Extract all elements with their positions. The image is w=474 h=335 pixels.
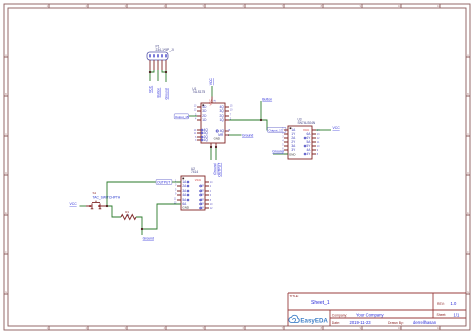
U2 right pin names xyxy=(200,184,205,210)
svg-text:B: B xyxy=(467,92,469,96)
junction S1 node xyxy=(106,205,108,207)
U2 body xyxy=(181,176,205,210)
wire U1 gnd down xyxy=(210,147,212,160)
svg-text:A: A xyxy=(5,53,7,57)
junction U1 cp xyxy=(215,146,217,148)
svg-text:Your Company: Your Company xyxy=(356,313,384,318)
svg-text:A: A xyxy=(467,53,469,57)
IC U1 74LS175 xyxy=(192,87,225,143)
wire button node up xyxy=(260,101,262,120)
svg-text:VCC: VCC xyxy=(195,178,202,182)
svg-text:SN74LS04N: SN74LS04N xyxy=(298,121,316,125)
svg-text:D: D xyxy=(5,171,7,175)
svg-text:1/1: 1/1 xyxy=(454,312,460,317)
svg-text:E: E xyxy=(5,211,7,215)
U2 left pin names xyxy=(182,180,187,206)
svg-text:Date:: Date: xyxy=(332,321,340,325)
U3 left pin numbers xyxy=(282,127,284,154)
svg-text:1Q: 1Q xyxy=(220,118,225,122)
U3 right pin names xyxy=(306,132,311,156)
svg-text:C: C xyxy=(467,132,469,136)
svg-text:REV:: REV: xyxy=(437,302,445,306)
U1 VCC pin stub top xyxy=(211,97,213,104)
junction button node xyxy=(260,119,262,121)
svg-text:GND: GND xyxy=(214,137,220,141)
U1 right pin names xyxy=(220,105,225,122)
U1 bottom pin stubs xyxy=(211,143,216,147)
svg-text:derrellhasan: derrellhasan xyxy=(413,320,437,325)
U3 pin1 marker xyxy=(290,127,292,129)
svg-text:GND: GND xyxy=(289,152,295,156)
resistor R1 xyxy=(121,210,136,220)
svg-text:VCC: VCC xyxy=(209,98,213,105)
U1 pin1 marker xyxy=(202,104,204,106)
U2 pin1 marker xyxy=(182,178,184,180)
U3 body xyxy=(288,126,312,159)
junction U1 gnd xyxy=(210,146,212,148)
svg-text:Drawn By:: Drawn By: xyxy=(388,321,404,325)
svg-text:VCC: VCC xyxy=(149,85,153,93)
wire P1 pin3 button xyxy=(157,70,159,81)
svg-text:OUTPUT: OUTPUT xyxy=(217,163,221,177)
wire ground node to U2 gnd xyxy=(142,204,181,229)
svg-text:3Q: 3Q xyxy=(220,109,225,113)
svg-text:Ground: Ground xyxy=(242,133,253,137)
svg-text:Ground: Ground xyxy=(272,149,283,153)
svg-text:3D: 3D xyxy=(202,109,207,113)
svg-text:234-1*5P_JI: 234-1*5P_JI xyxy=(156,48,174,52)
svg-text:1.0: 1.0 xyxy=(451,301,457,306)
U2 left pin numbers xyxy=(174,179,177,204)
U1 right pin numbers xyxy=(230,104,233,120)
switch S1 xyxy=(86,191,121,209)
title block outline xyxy=(288,293,466,326)
wire U1 vcc xyxy=(211,86,213,97)
R1 zigzag xyxy=(121,215,136,220)
U1 left lower pin names xyxy=(204,128,209,142)
svg-text:Sheet_1: Sheet_1 xyxy=(311,300,330,306)
junction P1 vcc xyxy=(149,71,151,73)
svg-text:VCC: VCC xyxy=(70,202,78,206)
svg-text:Company:: Company: xyxy=(332,313,348,317)
svg-text:C: C xyxy=(5,132,7,136)
connector pin pads xyxy=(149,54,167,57)
svg-text:EasyEDA: EasyEDA xyxy=(300,317,328,324)
U1 right Q pins xyxy=(225,107,229,120)
svg-text:74LS175: 74LS175 xyxy=(192,90,205,94)
title block xyxy=(288,293,466,326)
U2 left pin stubs xyxy=(177,182,181,204)
wire R1 to ground node xyxy=(136,217,142,235)
svg-text:1D: 1D xyxy=(202,118,207,122)
svg-text:GND: GND xyxy=(182,206,190,210)
junction P1 gnd xyxy=(165,71,167,73)
IC U3 SN74LS04N xyxy=(282,117,320,159)
wire S1 node to R1 xyxy=(107,206,121,217)
wire U3 vcc xyxy=(316,129,331,131)
U1 left pin names xyxy=(202,105,207,122)
svg-text:Button: Button xyxy=(157,88,161,98)
svg-text:Output_15: Output_15 xyxy=(175,115,189,119)
svg-text:Sheet:: Sheet: xyxy=(437,313,447,317)
S1 contact pads xyxy=(89,205,91,207)
U1 inversion bubbles left xyxy=(201,129,203,141)
connector body xyxy=(147,52,168,60)
net port Output_O xyxy=(268,127,286,132)
U3 left pin stubs xyxy=(284,130,288,154)
U1 left D pins xyxy=(197,107,201,120)
svg-text:E: E xyxy=(467,211,469,215)
connector P1 xyxy=(147,45,174,70)
svg-text:Ground: Ground xyxy=(213,163,217,174)
U1 body xyxy=(201,103,225,143)
IC U2 7414 xyxy=(174,167,213,210)
EasyEDA logo xyxy=(289,315,329,324)
S1 contacts xyxy=(91,203,102,208)
svg-text:OUTPUT: OUTPUT xyxy=(157,181,170,185)
U2 right pin stubs xyxy=(205,182,209,208)
svg-text:D: D xyxy=(467,171,469,175)
svg-text:1Q: 1Q xyxy=(204,138,209,142)
net port OUTPUT xyxy=(156,179,172,184)
svg-text:B: B xyxy=(5,92,7,96)
wire U1 1Q to button node xyxy=(229,119,261,121)
svg-text:G: G xyxy=(5,290,7,294)
wire button node to U3 1A xyxy=(261,120,288,130)
wire U1 2D to Output_15 port xyxy=(189,115,198,117)
svg-text:Ground: Ground xyxy=(165,88,169,99)
U2 output bubbles xyxy=(200,185,202,209)
wire OUTPUT to U2 1A xyxy=(172,181,181,183)
svg-text:G: G xyxy=(467,290,469,294)
junction ground node xyxy=(141,228,143,230)
S1 actuator xyxy=(92,201,100,203)
U1 pin MR xyxy=(225,134,229,136)
S1 leads xyxy=(86,205,107,207)
U2 input hysteresis marks xyxy=(187,181,189,201)
wire VCC to S1 xyxy=(80,205,87,207)
U1 left pin numbers xyxy=(194,104,197,120)
svg-text:Button: Button xyxy=(262,97,272,101)
svg-text:TITLE:: TITLE: xyxy=(290,294,299,298)
U1 CP bubble xyxy=(216,130,218,132)
U1 pin CP xyxy=(225,130,229,132)
U3 right pin stubs xyxy=(312,130,316,154)
wire P1 pin1 to VCC xyxy=(149,70,151,81)
U3 output bubbles xyxy=(304,137,306,155)
pin stubs xyxy=(150,60,166,70)
svg-text:Ground: Ground xyxy=(143,236,154,240)
U1 left inverted Q pins xyxy=(197,130,201,140)
wire S1 node up to OUTPUT xyxy=(107,182,156,206)
svg-text:VCC: VCC xyxy=(209,78,213,86)
svg-text:VCC: VCC xyxy=(333,126,341,130)
U3 right pin numbers xyxy=(317,129,320,156)
wire P1 pin4 join xyxy=(162,70,166,72)
wire U1 MR to Ground label xyxy=(229,134,242,136)
wire P1 pin2 join xyxy=(150,70,154,72)
svg-text:7414: 7414 xyxy=(191,170,198,174)
svg-text:2019-11-23: 2019-11-23 xyxy=(350,320,372,325)
U3 left pin names xyxy=(291,128,296,152)
svg-text:Output_13: Output_13 xyxy=(269,129,283,133)
wire P1 pin5 to ground xyxy=(165,70,167,82)
net port Output_15 at U1 xyxy=(174,114,189,119)
wire ground to U3 gnd xyxy=(273,153,288,155)
U2 right pin numbers xyxy=(210,181,213,210)
wire U1 cp down xyxy=(215,147,217,160)
U1 left lower pin numbers xyxy=(194,129,197,142)
